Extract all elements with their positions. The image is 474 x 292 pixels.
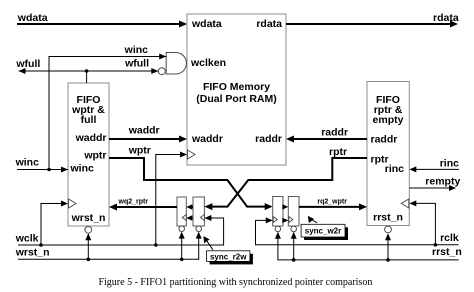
FF4 clock triangle [289,217,293,223]
U3 clock triangle [401,199,409,208]
svg-text:winc: winc [124,44,148,56]
wire rempty [409,176,460,192]
FIFO wptr & full block U2 [68,83,109,226]
wire wdata [17,12,187,28]
svg-text:rinc: rinc [440,158,459,170]
sync_r2w label box [203,236,253,264]
wire wptr [109,145,273,211]
sync_w2r FF3 [273,197,283,227]
wire waddr [109,125,187,143]
svg-text:FIFO Memory: FIFO Memory [203,81,270,93]
wire wrst_n net [15,232,202,262]
svg-text:waddr: waddr [191,133,223,145]
svg-text:rrst_n: rrst_n [432,246,462,258]
svg-text:raddr: raddr [371,134,398,146]
svg-text:wrst_n: wrst_n [15,247,50,259]
FF3 clock triangle [273,217,277,223]
wire raddr [286,127,367,143]
svg-text:wdata: wdata [191,18,222,30]
svg-text:rptr: rptr [329,146,347,158]
svg-text:wrst_n: wrst_n [71,212,106,224]
svg-text:wfull: wfull [15,58,40,70]
wire wfull [15,58,158,84]
wire rq2_wptr [299,199,367,211]
svg-text:winc: winc [70,163,94,175]
wire rdata [286,12,459,28]
svg-text:sync_w2r: sync_w2r [305,227,341,236]
U3 reset bubble [385,226,392,233]
svg-text:wclken: wclken [190,57,226,69]
FIFO rptr & empty block U3 [367,82,409,226]
svg-text:wq2_rptr: wq2_rptr [118,199,149,206]
wire winc to gate [49,44,166,170]
FF4 reset bubble [291,226,297,232]
wire winc input [15,157,68,173]
wire wclk net [15,152,224,247]
wire rclk net [256,200,459,246]
svg-text:rdata: rdata [433,12,459,24]
svg-text:wptr: wptr [128,145,151,157]
svg-text:wfull: wfull [124,58,149,70]
U2 reset bubble [85,226,92,233]
svg-text:sync_r2w: sync_r2w [210,252,247,261]
svg-text:raddr: raddr [255,133,282,145]
FF1 clock triangle [182,215,186,221]
U2 clock triangle [69,199,77,208]
svg-text:rempty: rempty [425,176,460,188]
svg-text:rdata: rdata [256,18,282,30]
sync_r2w FF1 [177,197,186,226]
svg-text:empty: empty [373,114,404,126]
svg-text:wptr: wptr [83,150,106,162]
FF2 clock triangle [200,215,204,221]
svg-text:raddr: raddr [321,127,348,139]
svg-text:waddr: waddr [128,125,160,137]
wire rinc [409,158,459,173]
svg-text:Figure 5 - FIFO1 partitioning: Figure 5 - FIFO1 partitioning with synch… [98,277,372,288]
wire FF3-FF4 connector [282,204,288,209]
wire rptr [204,146,367,210]
U1 wclk triangle [188,150,196,159]
svg-text:rclk: rclk [440,232,459,244]
svg-text:wdata: wdata [17,12,48,24]
AND gate U4 [166,53,186,75]
svg-text:wclk: wclk [15,233,39,245]
svg-text:waddr: waddr [75,132,107,144]
svg-text:full: full [81,114,97,126]
FF2 reset bubble [196,226,202,232]
sync_r2w FF2 [193,197,204,226]
svg-text:rrst_n: rrst_n [373,212,403,224]
U4 input bubble [158,68,165,75]
wire FF1-FF2 connector [186,204,193,209]
wire wq2_rptr [109,199,177,211]
sync_w2r label box [301,216,348,240]
FIFO Memory block U1 [187,14,286,165]
FF1 reset bubble [179,226,185,232]
svg-text:rinc: rinc [385,163,404,175]
svg-text:rq2_wptr: rq2_wptr [317,199,347,206]
FF3 reset bubble [275,226,281,232]
svg-text:(Dual Port RAM): (Dual Port RAM) [196,93,277,105]
wire rrst_n net [275,232,462,262]
sync_w2r FF4 [288,197,299,227]
svg-text:winc: winc [15,157,39,169]
